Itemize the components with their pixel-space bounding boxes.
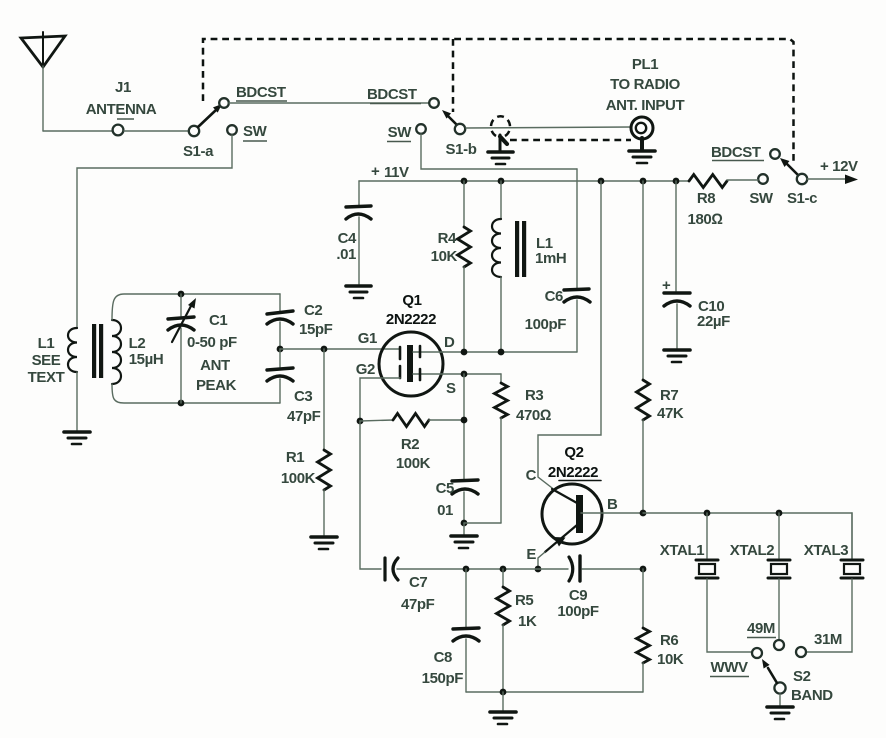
wire S1-b pole to PL1: [466, 127, 631, 128]
svg-text:15µH: 15µH: [129, 351, 164, 368]
node drain R4: [461, 349, 468, 356]
node R1 top: [321, 346, 328, 353]
svg-text:49M: 49M: [747, 620, 775, 637]
svg-text:S1-a: S1-a: [183, 143, 214, 160]
wire XTAL1 to WWV contact: [707, 579, 751, 652]
svg-text:S: S: [446, 380, 456, 397]
wire emitter: [538, 552, 545, 569]
capacitor C9: [557, 556, 643, 620]
wire base: [581, 512, 643, 514]
capacitor C10: [662, 181, 730, 348]
svg-text:C3: C3: [294, 388, 312, 405]
label 49M: [747, 620, 776, 638]
wire S1-b SW down right to C6: [421, 134, 577, 169]
svg-text:G2: G2: [356, 361, 375, 378]
wire drain line: [443, 351, 577, 353]
connector PL1: [631, 117, 653, 139]
ground R1: [311, 537, 337, 549]
svg-text:150pF: 150pF: [422, 670, 464, 687]
svg-text:ANTENNA: ANTENNA: [86, 101, 157, 118]
svg-text:C2: C2: [304, 302, 322, 319]
svg-text:G1: G1: [358, 330, 377, 347]
resistor R2: [360, 414, 464, 473]
wire bottom row: [466, 691, 643, 693]
svg-text:ANT. INPUT: ANT. INPUT: [606, 97, 685, 114]
shield loop dashed: [491, 116, 510, 136]
svg-text:Q2: Q2: [564, 444, 583, 461]
svg-text:BDCST: BDCST: [711, 144, 761, 161]
svg-text:D: D: [444, 334, 455, 351]
label SW (S1-b): [387, 124, 412, 142]
svg-text:C5: C5: [436, 480, 454, 497]
label S2 BAND: [791, 668, 833, 704]
svg-text:PL1: PL1: [632, 56, 658, 73]
node R5 top: [500, 566, 507, 573]
resistor R1: [281, 349, 331, 535]
inductor L1 1mH: [492, 181, 566, 352]
svg-text:PEAK: PEAK: [196, 377, 237, 394]
svg-text:SW: SW: [749, 190, 774, 207]
transformer primary L1: [28, 328, 77, 386]
label SW (S1-a): [243, 123, 268, 141]
wire antenna stem: [42, 66, 44, 131]
svg-text:S1-b: S1-b: [446, 141, 477, 158]
wire tank bottom: [112, 384, 280, 403]
wire primary to ground: [76, 372, 78, 430]
capacitor C3: [267, 349, 321, 425]
label PL1 TO RADIO ANT. INPUT: [606, 56, 685, 114]
svg-text:R8: R8: [697, 190, 715, 207]
svg-text:ANT: ANT: [200, 357, 230, 374]
node C1 bottom: [178, 400, 185, 407]
node XTAL2 top: [776, 510, 783, 517]
dashed drop to S1-b: [452, 39, 455, 112]
svg-text:100pF: 100pF: [557, 603, 599, 620]
wire +11V rail: [359, 180, 689, 182]
svg-text:BAND: BAND: [791, 687, 833, 704]
label J1 ANTENNA: [86, 79, 157, 119]
capacitor C5: [436, 480, 478, 523]
wire XTAL2 to 49M contact: [778, 579, 780, 639]
node rail L1: [498, 178, 505, 185]
svg-text:C: C: [526, 467, 537, 484]
resistor R6: [637, 569, 684, 692]
wire tank top: [112, 294, 280, 320]
wire XTAL3 to 31M contact: [807, 579, 852, 652]
label BDCST (S1-b): [367, 86, 421, 104]
resistor R8: [688, 175, 727, 229]
connector J1: [113, 125, 124, 136]
wire G1: [280, 348, 399, 350]
capacitor C1 variable: [168, 294, 237, 403]
svg-text:2N2222: 2N2222: [548, 464, 598, 481]
wire antenna to J1: [43, 130, 112, 132]
wire R3 bottom to C5 node: [464, 522, 501, 524]
wire J1 to S1-a: [124, 130, 188, 132]
wire source line: [443, 373, 501, 375]
svg-text:01: 01: [437, 502, 453, 519]
capacitor C6: [525, 169, 590, 352]
svg-text:C8: C8: [434, 649, 452, 666]
dashed BDCST net top: [203, 39, 794, 165]
node drain L1: [498, 349, 505, 356]
node source: [461, 371, 468, 378]
transistor Q2: [542, 444, 602, 552]
wire S2 pole to ground: [779, 694, 781, 705]
node +11V label: [371, 163, 409, 181]
wire base to crystals: [643, 513, 852, 559]
svg-text:R2: R2: [401, 436, 419, 453]
svg-text:XTAL2: XTAL2: [730, 542, 774, 559]
svg-text:47pF: 47pF: [287, 408, 321, 425]
svg-text:22µF: 22µF: [697, 313, 730, 330]
resistor R5: [497, 569, 537, 692]
svg-text:R1: R1: [286, 449, 304, 466]
svg-text:R6: R6: [660, 632, 678, 649]
ground C10: [664, 350, 690, 362]
transformer core: [92, 324, 103, 378]
node rail R7: [640, 178, 647, 185]
switch S1-a: [189, 98, 237, 136]
svg-text:10K: 10K: [431, 248, 458, 265]
svg-text:C6: C6: [545, 288, 563, 305]
svg-text:.01: .01: [336, 246, 356, 263]
svg-text:R7: R7: [660, 387, 678, 404]
ground bottom: [490, 692, 516, 724]
svg-text:SEE: SEE: [32, 352, 61, 369]
svg-text:47pF: 47pF: [401, 596, 435, 613]
svg-text:J1: J1: [115, 79, 131, 96]
svg-text:L1: L1: [38, 335, 55, 352]
node C8 top: [463, 566, 470, 573]
svg-text:B: B: [607, 496, 618, 513]
resistor R7: [637, 181, 684, 513]
svg-text:Q1: Q1: [402, 292, 421, 309]
svg-text:C4: C4: [338, 230, 357, 247]
svg-text:XTAL3: XTAL3: [804, 542, 848, 559]
ground S2: [767, 707, 793, 719]
svg-text:R4: R4: [438, 230, 457, 247]
svg-text:+: +: [371, 163, 380, 180]
svg-text:100pF: 100pF: [525, 316, 567, 333]
capacitor C7: [385, 558, 435, 613]
ground transformer: [64, 432, 90, 444]
crystal XTAL1: [660, 513, 718, 578]
node base R7: [640, 510, 647, 517]
wire Q2 collector to rail: [538, 181, 601, 491]
node C1 top: [178, 291, 185, 298]
wire G2 to R2: [360, 378, 400, 421]
crystal XTAL2: [730, 513, 790, 578]
ground PL1: [629, 138, 655, 163]
capacitor C8: [422, 569, 479, 692]
shield ground blob: [500, 137, 507, 145]
svg-text:180Ω: 180Ω: [688, 211, 723, 228]
svg-text:S2: S2: [793, 668, 811, 685]
node rail C10: [673, 178, 680, 185]
svg-text:XTAL1: XTAL1: [660, 542, 704, 559]
crystal XTAL3: [804, 513, 863, 578]
svg-text:11V: 11V: [384, 164, 409, 181]
svg-text:47K: 47K: [657, 405, 684, 422]
svg-text:BDCST: BDCST: [367, 86, 417, 103]
svg-text:L2: L2: [129, 335, 146, 352]
svg-text:S1-c: S1-c: [787, 190, 817, 207]
dashed shield to PL1 ground: [510, 139, 631, 142]
node rail R4: [461, 178, 468, 185]
capacitor C4: [336, 181, 371, 284]
svg-text:100K: 100K: [281, 470, 316, 487]
svg-text:2N2222: 2N2222: [386, 311, 436, 328]
node XTAL1 top: [704, 510, 711, 517]
wire S1-c pole to +12V arrow: [807, 175, 858, 185]
switch S1-c: [758, 149, 807, 184]
svg-text:31M: 31M: [814, 631, 842, 648]
svg-text:SW: SW: [243, 123, 268, 140]
label WWV: [710, 659, 749, 677]
svg-text:SW: SW: [388, 124, 413, 141]
svg-text:10K: 10K: [657, 651, 684, 668]
transistor Q1 dual-gate FET: [379, 292, 443, 396]
wire source to R3: [500, 374, 502, 383]
node rail collector line: [598, 178, 605, 185]
svg-text:C7: C7: [409, 574, 427, 591]
svg-text:15pF: 15pF: [299, 321, 333, 338]
svg-text:BDCST: BDCST: [236, 84, 286, 101]
ground C4: [346, 286, 371, 298]
svg-text:TEXT: TEXT: [28, 369, 65, 386]
ground shield: [488, 135, 513, 164]
node bottom ground: [500, 689, 507, 696]
wire S1-a SW down-left to transformer: [77, 135, 232, 328]
node R2 left: [357, 418, 364, 425]
svg-text:TO RADIO: TO RADIO: [610, 76, 681, 93]
svg-text:1K: 1K: [518, 613, 537, 630]
wire R8 to S1-c SW: [727, 179, 758, 181]
wire G2 node down to C7: [360, 421, 381, 569]
svg-text:R3: R3: [525, 387, 543, 404]
svg-text:0-50 pF: 0-50 pF: [187, 334, 237, 351]
svg-text:1mH: 1mH: [535, 250, 566, 267]
node emitter: [535, 566, 542, 573]
node emitter R6: [640, 566, 647, 573]
wire source down to C5: [463, 374, 465, 480]
capacitor C2: [267, 294, 333, 349]
svg-text:C9: C9: [569, 587, 587, 604]
node R2 right: [461, 417, 468, 424]
svg-text:R5: R5: [515, 592, 533, 609]
label BDCST (S1-c): [711, 144, 764, 161]
switch S2: [752, 640, 806, 694]
node C5 bottom: [461, 520, 468, 527]
svg-text:+ 12V: + 12V: [820, 158, 858, 175]
transformer secondary L2: [112, 320, 163, 384]
resistor R3: [495, 383, 551, 523]
node C2 C3 junction: [277, 346, 284, 353]
svg-text:E: E: [526, 546, 536, 563]
svg-text:WWV: WWV: [710, 659, 748, 676]
antenna J1 symbol: [21, 32, 65, 67]
wire BDCST a to b: [229, 102, 429, 104]
wire emitter row: [397, 568, 568, 570]
ground C5: [451, 523, 477, 548]
resistor R4: [431, 181, 471, 352]
label BDCST (S1-a): [236, 84, 287, 101]
svg-text:470Ω: 470Ω: [516, 407, 551, 424]
switch S1-b: [416, 98, 465, 134]
svg-text:C1: C1: [209, 312, 227, 329]
svg-text:100K: 100K: [396, 455, 431, 472]
